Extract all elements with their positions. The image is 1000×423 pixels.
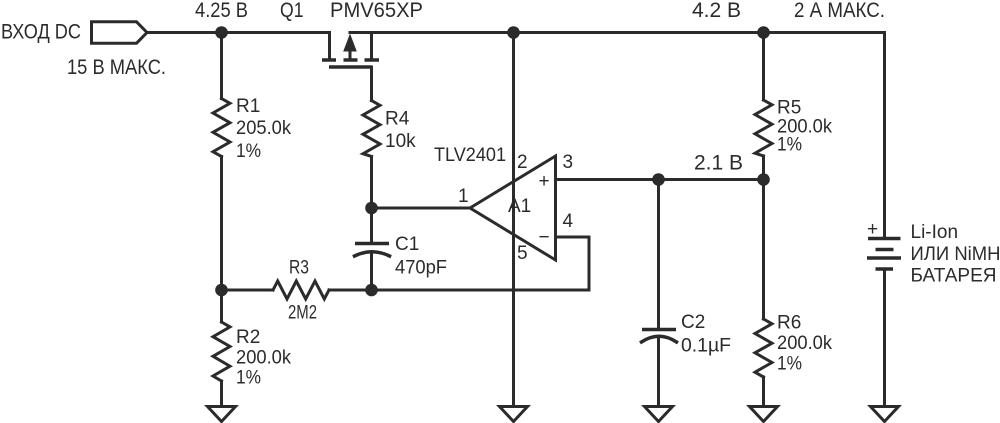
label 2 А МАКС. — [794, 0, 885, 22]
op-amp minus input — [538, 227, 549, 248]
ground C2 — [645, 407, 673, 422]
resistor R1 — [213, 99, 230, 157]
svg-text:0.1µF: 0.1µF — [681, 336, 731, 357]
battery label БАТАРЕЯ — [911, 266, 997, 287]
pin 3 — [563, 152, 574, 173]
svg-text:10k: 10k — [385, 131, 416, 152]
wire top rail drain to battery — [350, 31, 885, 34]
designator R1 — [236, 96, 260, 117]
pin 2 — [517, 152, 528, 173]
value C2 0.1uF — [681, 336, 731, 357]
svg-text:200.0k: 200.0k — [236, 348, 291, 369]
svg-text:ВХОД DC: ВХОД DC — [1, 21, 81, 44]
wire riser up to pin 4 — [588, 237, 591, 290]
battery label ИЛИ NiMH — [911, 244, 1000, 265]
designator A1 — [508, 196, 531, 217]
designator R4 — [385, 109, 410, 130]
svg-text:R3: R3 — [289, 258, 309, 279]
svg-text:470pF: 470pF — [395, 258, 447, 279]
svg-text:A1: A1 — [508, 196, 531, 217]
svg-text:4: 4 — [563, 211, 574, 232]
wire C1 to feedback net — [370, 253, 373, 290]
battery BT1 — [867, 239, 901, 270]
tolerance R6 1% — [777, 354, 802, 375]
svg-text:200.0k: 200.0k — [777, 333, 832, 354]
svg-text:PMV65XP: PMV65XP — [330, 0, 423, 22]
label 15 В МАКС. — [67, 56, 166, 79]
svg-text:C1: C1 — [395, 234, 419, 255]
value R2 200.0k — [236, 348, 291, 369]
wire node to op-amp output pin 1 — [372, 207, 471, 210]
svg-text:−: − — [538, 227, 549, 248]
designator C1 — [395, 234, 419, 255]
svg-text:1%: 1% — [777, 135, 802, 156]
value R4 10k — [385, 131, 416, 152]
svg-text:4.2 В: 4.2 В — [692, 0, 741, 22]
wire R1 to node — [220, 157, 223, 291]
junction pin3 C2 — [652, 173, 665, 186]
pin 5 — [517, 243, 528, 264]
junction C1 feedback — [365, 284, 378, 297]
tolerance R5 1% — [777, 135, 802, 156]
designator R2 — [236, 327, 260, 348]
ground R2 — [208, 407, 236, 422]
svg-text:1: 1 — [458, 186, 469, 207]
designator R5 — [777, 98, 801, 119]
wire battery branch down — [883, 33, 886, 239]
value R1 205.0k — [236, 118, 291, 139]
svg-text:БАТАРЕЯ: БАТАРЕЯ — [911, 266, 997, 287]
wire R1 branch from input node — [220, 33, 223, 99]
pin 1 — [458, 186, 469, 207]
node label 4.25 В — [195, 0, 248, 22]
capacitor C1 — [355, 244, 390, 257]
input connector symbol — [92, 22, 148, 43]
resistor R5 — [755, 100, 772, 156]
wire 2.1V node to R5 node — [659, 178, 764, 181]
pin 4 — [563, 211, 574, 232]
svg-text:3: 3 — [563, 152, 574, 173]
junction rail R5 — [757, 26, 770, 39]
wire C2 to ground — [657, 338, 660, 406]
ground R6 — [750, 407, 778, 422]
svg-text:2: 2 — [517, 152, 528, 173]
wire supply pin 2 to rail and pin 5 to ground — [512, 33, 515, 407]
value C1 470pF — [395, 258, 447, 279]
wire gate to R4 — [370, 67, 373, 101]
part TLV2401 — [434, 145, 506, 166]
wire node to C2 — [657, 180, 660, 330]
svg-text:1%: 1% — [236, 368, 261, 389]
svg-text:TLV2401: TLV2401 — [434, 145, 506, 166]
svg-text:Q1: Q1 — [280, 0, 304, 22]
wire node to R3 — [222, 289, 274, 292]
svg-text:4.25 В: 4.25 В — [195, 0, 248, 22]
capacitor C2 — [642, 330, 677, 343]
svg-text:2.1 В: 2.1 В — [694, 152, 743, 175]
resistor R2 — [213, 322, 230, 381]
junction input node — [215, 26, 228, 39]
svg-text:R1: R1 — [236, 96, 260, 117]
battery label Li-Ion — [911, 222, 959, 243]
designator Q1 — [280, 0, 304, 22]
junction R4 output — [365, 202, 378, 215]
svg-text:2 А МАКС.: 2 А МАКС. — [794, 0, 885, 22]
junction R5 R6 — [757, 173, 770, 186]
svg-text:Li-Ion: Li-Ion — [911, 222, 959, 243]
wire pin 4 — [556, 236, 590, 239]
node label 4.2 В — [692, 0, 741, 22]
svg-text:205.0k: 205.0k — [236, 118, 291, 139]
svg-text:5: 5 — [517, 243, 528, 264]
svg-text:R6: R6 — [777, 313, 801, 334]
wire node to R6 — [762, 180, 765, 320]
wire node to C1 — [370, 208, 373, 243]
resistor R4 — [363, 101, 380, 157]
svg-text:1%: 1% — [236, 141, 261, 162]
value R6 200.0k — [777, 333, 832, 354]
label input ВХОД DC — [1, 21, 81, 44]
designator C2 — [681, 312, 705, 333]
wire input to node — [147, 31, 330, 34]
svg-text:ИЛИ NiMH: ИЛИ NiMH — [911, 244, 1000, 265]
resistor R3 — [273, 281, 329, 299]
wire R3 to feedback node — [329, 289, 372, 292]
transistor Q1 PMV65XP — [322, 33, 379, 68]
svg-text:1%: 1% — [777, 354, 802, 375]
svg-text:R2: R2 — [236, 327, 260, 348]
svg-text:2M2: 2M2 — [288, 303, 317, 324]
wire R2 to ground — [220, 381, 223, 406]
svg-text:R4: R4 — [385, 109, 410, 130]
wire R6 to ground — [762, 377, 765, 406]
designator R6 — [777, 313, 801, 334]
node label 2.1 В — [694, 152, 743, 175]
tolerance R1 1% — [236, 141, 261, 162]
tolerance R2 1% — [236, 368, 261, 389]
svg-text:+: + — [867, 219, 878, 240]
resistor R6 — [755, 319, 772, 377]
op-amp plus input — [538, 171, 549, 192]
svg-text:R5: R5 — [777, 98, 801, 119]
battery polarity + — [867, 219, 878, 240]
wire feedback net to pin 4 riser — [372, 289, 590, 292]
junction R1 R2 R3 — [215, 284, 228, 297]
junction supply rail pin 2 — [507, 26, 520, 39]
wire rail node down to R5 — [762, 33, 765, 101]
wire battery to ground — [883, 269, 886, 406]
value R5 200.0k — [777, 117, 832, 138]
op-amp A1 TLV2401 — [470, 156, 556, 260]
wire R4 to node — [370, 157, 373, 209]
svg-text:15 В МАКС.: 15 В МАКС. — [67, 56, 166, 79]
wire pin 3 to node — [556, 178, 659, 181]
ground op-amp pin 5 — [500, 407, 528, 422]
value PMV65XP — [330, 0, 423, 22]
svg-text:+: + — [538, 171, 549, 192]
wire node to R2 — [220, 290, 223, 322]
svg-text:C2: C2 — [681, 312, 705, 333]
ground battery — [871, 407, 899, 422]
designator R3 — [289, 258, 309, 279]
value R3 2M2 — [288, 303, 317, 324]
wire R5 to node — [762, 156, 765, 180]
